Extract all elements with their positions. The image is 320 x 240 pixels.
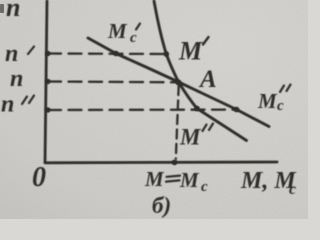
dot M'' [194,106,200,112]
dot п' on axis [45,51,50,56]
svg-text:M: M [179,125,202,150]
svg-text:n: n [6,0,20,22]
line Mc (shallow line) [88,38,269,127]
svg-text:c: c [277,98,284,114]
curve M (steep demand curve) [154,1,247,141]
svg-text:M: M [107,19,128,43]
dashed level line п'' [48,108,237,111]
svg-text:0: 0 [32,162,46,193]
svg-text:c: c [201,179,208,195]
svg-text:б): б) [152,193,171,218]
double prime of п'' [22,96,34,105]
vertical axis (п axis) [45,1,47,163]
horizontal axis (М axis) [45,161,277,165]
svg-text:n: n [10,66,23,92]
dashed vertical line at M=Mc [176,86,179,159]
svg-text:n: n [5,41,18,67]
dark smudge at left edge top [0,4,4,13]
dot M=Mc on axis [172,160,178,166]
svg-text:M: M [178,37,203,66]
svg-text:A: A [198,66,217,93]
svg-text:M: M [144,167,165,191]
dot п'' on axis [45,107,50,112]
dot Mc' [113,51,119,57]
svg-text:c: c [130,30,137,46]
svg-text:c: c [289,181,296,198]
svg-text:n: n [1,92,14,118]
svg-text:M: M [257,89,278,113]
svg-text:M: M [179,168,200,192]
dot M' [164,51,170,57]
dot A (equilibrium) [176,80,182,86]
dot Mc'' [234,107,240,113]
prime of п' [28,47,34,55]
dashed level line п' [48,52,166,55]
dot п on axis [45,79,50,84]
dashed level line п (equilibrium) [48,80,178,83]
